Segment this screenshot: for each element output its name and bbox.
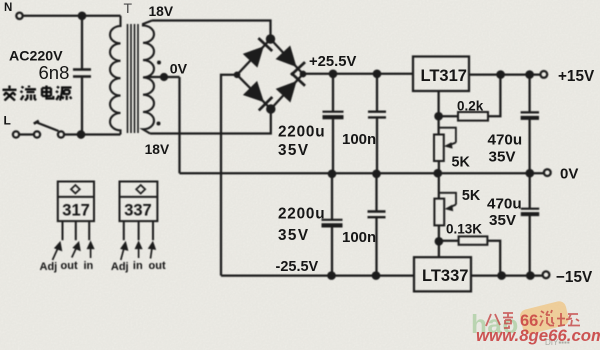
capacitor C3 2200u bottom: [322, 220, 343, 226]
svg-text:0.2k: 0.2k: [457, 99, 484, 114]
svg-text:18V: 18V: [149, 4, 174, 19]
capacitor C1 2200u top: [323, 112, 344, 118]
capacitor C2 100n top: [368, 112, 386, 118]
svg-text:N: N: [4, 2, 12, 14]
junction U2 adj node: [436, 238, 442, 244]
svg-text:2200u: 2200u: [278, 206, 325, 223]
wire C2 chain upper: [376, 74, 378, 112]
wire 6n8 lower lead: [81, 77, 83, 135]
label 交流电源 AC power source (drawn strokes): [3, 86, 72, 101]
junction -25.5 rail C4: [373, 272, 379, 278]
wire 6n8 upper lead: [81, 16, 83, 69]
wire center tap down to 0V rail: [178, 77, 180, 173]
watermark 66 forum logo: [471, 300, 600, 347]
svg-text:5K: 5K: [452, 155, 471, 171]
junction out rail 470u: [526, 71, 532, 77]
svg-text:100n: 100n: [342, 131, 376, 148]
resistor R2 0.13K: [459, 236, 488, 244]
wire bridge minus down: [221, 75, 237, 276]
capacitor 6n8: [73, 70, 91, 77]
wire +25.5V rail: [303, 73, 413, 75]
potentiometer RP2 wiper: [440, 193, 457, 211]
junction 0V rail C1: [329, 171, 335, 177]
svg-text:+25.5V: +25.5V: [309, 54, 356, 70]
pin arrows 317: [53, 242, 94, 260]
wire secondary top to bridge: [152, 21, 271, 40]
wire U1 output rail: [469, 73, 540, 75]
junction +25.5 rail at C2: [374, 71, 380, 77]
terminal +15V: [540, 71, 547, 78]
capacitor C6 470u bottom: [521, 209, 539, 214]
svg-text:-25.5V: -25.5V: [276, 259, 319, 275]
svg-text:35V: 35V: [278, 142, 309, 159]
svg-text:317: 317: [62, 201, 90, 219]
junction U1 adj node: [435, 113, 441, 119]
capacitor C4 100n bottom: [368, 212, 386, 218]
svg-text:5K: 5K: [462, 188, 481, 204]
svg-text:LT317: LT317: [421, 67, 467, 85]
regulator pinout 337 package: [111, 182, 166, 273]
svg-text:L: L: [4, 114, 11, 128]
wire R2 to -15 rail: [487, 241, 500, 276]
wire C1 chain upper: [332, 74, 334, 112]
junction bottom of C 6n8: [78, 131, 84, 137]
diode bottom-left arrow to bottom: [243, 81, 272, 111]
wire R1 to out rail: [488, 75, 500, 117]
junction 0V rail C2: [373, 171, 379, 177]
wire 470u C5 upper: [528, 75, 530, 113]
junction top of C 6n8: [79, 13, 85, 19]
wire C3 to -25.5 rail: [331, 226, 333, 276]
wire C2 to 0V rail: [376, 118, 378, 175]
watermark 八哥 strokes: [486, 313, 513, 328]
diode top-left arrow to top: [243, 38, 272, 68]
diode bottom-right arrow to right: [276, 73, 305, 103]
wire C3 chain lower: [331, 174, 333, 220]
wire secondary bottom to bridge: [150, 109, 271, 134]
svg-text:in: in: [84, 260, 94, 272]
svg-text:0.13K: 0.13K: [446, 222, 482, 237]
wire center tap: [148, 76, 180, 78]
capacitor C5 470u top: [521, 112, 539, 118]
terminal 0V: [544, 169, 551, 176]
svg-text:6n8: 6n8: [39, 62, 70, 83]
transformer T secondary winding: [143, 21, 154, 134]
regulator pinout 317 package: [40, 182, 95, 273]
svg-text:35V: 35V: [278, 227, 309, 244]
switch S1: [13, 121, 64, 138]
potentiometer RP1 wiper: [440, 128, 456, 149]
svg-text:Adj: Adj: [40, 261, 58, 273]
phase dot secondary lower: [157, 122, 161, 126]
junction -15 rail R2: [498, 272, 504, 278]
resistor R1 0.2k: [458, 112, 488, 121]
wire U2 adj pin: [438, 241, 440, 257]
potentiometer RP1 5K body: [434, 135, 444, 162]
bridge rectifier D1-D4: [235, 35, 305, 112]
svg-text:+15V: +15V: [558, 68, 595, 85]
svg-text:2200u: 2200u: [278, 124, 325, 141]
svg-text:−15V: −15V: [556, 269, 593, 286]
svg-text:337: 337: [124, 201, 152, 219]
watermark 论坛 strokes: [540, 310, 580, 326]
wire RP2 to adj node: [438, 225, 440, 241]
transformer T core: [128, 24, 139, 133]
junction -25.5 rail C3: [328, 272, 334, 278]
wire adj to R1: [439, 115, 458, 117]
op-amp U2 LT337 box: [414, 257, 471, 291]
svg-text:35V: 35V: [489, 212, 517, 229]
pin arrows 337: [121, 242, 155, 260]
wire C1 to 0V rail: [332, 118, 334, 175]
wire 470u C6 upper: [529, 173, 531, 208]
wire 0V to pot RP2: [438, 173, 440, 198]
svg-text:470u: 470u: [487, 196, 522, 213]
svg-text:Adj: Adj: [111, 261, 129, 273]
junction out rail R1: [497, 71, 503, 77]
wire C6 to -15 rail: [529, 215, 531, 276]
junction 0V rail pot chain: [435, 170, 441, 176]
svg-text:LT337: LT337: [422, 267, 468, 285]
wire -25.5V rail: [221, 274, 414, 276]
terminal -15V: [543, 271, 550, 278]
svg-text:100n: 100n: [342, 229, 376, 246]
svg-text:www.8ge66.com: www.8ge66.com: [476, 326, 600, 345]
svg-text:out: out: [149, 260, 166, 272]
svg-text:470u: 470u: [488, 132, 523, 149]
op-amp U1 LT317 box: [413, 57, 469, 92]
svg-text:T: T: [124, 0, 133, 16]
wire switch to junction: [65, 133, 121, 135]
phase dot secondary upper: [157, 61, 161, 65]
diode top-right arrow to right: [276, 46, 305, 76]
junction 0V rail 470u chain: [527, 170, 533, 176]
wire C4 chain lower: [375, 174, 377, 212]
wire adj node to R2: [439, 240, 459, 242]
svg-text:in: in: [133, 260, 143, 272]
wire 0V rail: [180, 172, 544, 174]
svg-text:18V: 18V: [145, 142, 170, 157]
wire U1 adj pin: [437, 91, 439, 116]
transformer T primary winding: [110, 16, 121, 135]
wire RP1 to 0V rail: [438, 161, 440, 173]
junction -15 rail 470u: [527, 272, 533, 278]
wire N to primary top: [23, 15, 121, 17]
potentiometer RP2 5K body: [434, 199, 444, 226]
wire U2 output rail: [471, 274, 542, 276]
wire C5 to 0V rail: [528, 119, 530, 174]
junction +25.5 rail at C1: [330, 71, 336, 77]
wire adj to pot RP1: [437, 116, 439, 134]
junction center tap 0V: [161, 74, 167, 80]
svg-text:0V: 0V: [170, 62, 188, 78]
svg-text:0V: 0V: [560, 165, 578, 182]
svg-text:35V: 35V: [489, 149, 517, 166]
node N terminal: [16, 13, 22, 19]
wire C4 to -25.5 rail: [375, 218, 377, 276]
svg-text:out: out: [61, 260, 78, 272]
